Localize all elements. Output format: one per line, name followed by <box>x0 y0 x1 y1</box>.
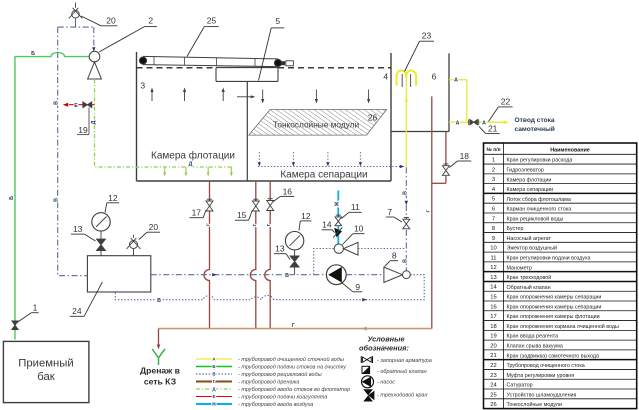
label 17 <box>190 208 207 218</box>
label 13 near pump <box>274 244 290 260</box>
svg-text:20: 20 <box>149 222 159 232</box>
label 24 <box>70 282 103 316</box>
check valve 14 <box>333 228 342 238</box>
svg-text:11: 11 <box>490 255 496 261</box>
svg-text:Г: Г <box>292 323 295 329</box>
svg-text:В: В <box>402 259 408 263</box>
svg-text:Г: Г <box>252 223 257 226</box>
svg-text:Кран трехходовой: Кран трехходовой <box>507 274 552 281</box>
svg-text:Гидроэлеватор: Гидроэлеватор <box>507 167 544 173</box>
svg-text:21: 21 <box>490 353 496 359</box>
svg-text:7: 7 <box>387 207 392 217</box>
svg-text:Д: Д <box>189 161 193 167</box>
legend line Е <box>196 394 327 400</box>
svg-text:Камера сепарации: Камера сепарации <box>280 170 367 181</box>
label 8 <box>385 251 399 267</box>
svg-text:20: 20 <box>106 15 116 25</box>
svg-text:Г: Г <box>425 209 430 212</box>
pipe B (green feed line) <box>15 52 91 339</box>
label 10 <box>343 224 365 245</box>
three-way valve 13 on saturator <box>97 239 106 256</box>
svg-text:А: А <box>454 78 458 84</box>
svg-text:- трубопровод ввода стоков во: - трубопровод ввода стоков во флотатор <box>238 387 350 393</box>
svg-text:обозначения:: обозначения: <box>359 344 409 353</box>
svg-text:1: 1 <box>492 158 495 164</box>
flotation chamber up-flow arrows <box>150 88 255 101</box>
svg-text:25: 25 <box>207 15 217 25</box>
svg-text:23: 23 <box>490 373 496 379</box>
legend pump symbol <box>362 376 396 388</box>
manometer 12 near pump <box>285 232 303 275</box>
pocket drain pipe with valve 18 <box>432 132 446 184</box>
svg-text:- трехходовой кран: - трехходовой кран <box>377 392 428 399</box>
sludge conveyor 25 <box>139 56 293 66</box>
svg-text:В: В <box>212 372 215 377</box>
svg-text:20: 20 <box>490 343 496 349</box>
svg-text:18: 18 <box>490 324 496 330</box>
svg-text:Карман очищенного стока: Карман очищенного стока <box>507 207 572 213</box>
valve 19 (reagent inlet) <box>83 102 92 108</box>
clean-water pocket 6 walls <box>391 53 449 131</box>
svg-text:12: 12 <box>301 211 311 221</box>
svg-text:15: 15 <box>237 210 247 220</box>
svg-text:6: 6 <box>432 72 437 82</box>
svg-text:2: 2 <box>492 167 495 173</box>
svg-text:23: 23 <box>422 31 432 41</box>
legend check valve symbol <box>362 366 427 375</box>
svg-text:В: В <box>285 273 289 279</box>
pipe V recycle intake dotted <box>258 152 405 168</box>
valve 17 <box>206 201 213 211</box>
pipe Zh air intake cyan <box>337 191 339 245</box>
svg-text:Е: Е <box>213 394 216 399</box>
svg-text:3: 3 <box>492 177 495 183</box>
drain pipe from separation chamber (valve 16 line) <box>265 181 271 329</box>
vacuum breaker 20 on saturator <box>127 235 141 256</box>
svg-text:15: 15 <box>490 295 496 301</box>
svg-text:Трубопровод очищенного стока: Трубопровод очищенного стока <box>507 363 585 369</box>
svg-text:Б: Б <box>212 364 215 369</box>
pipe V vacuum dash-dot circuit <box>58 19 96 276</box>
label 21 <box>479 124 500 134</box>
svg-text:Кран опорожнения камеры сепара: Кран опорожнения камеры сепарации <box>507 295 602 301</box>
svg-text:Отвод стока: Отвод стока <box>515 117 555 124</box>
label 7 <box>386 207 402 222</box>
svg-text:сеть КЗ: сеть КЗ <box>144 376 176 386</box>
pipe E red coagulant <box>63 103 95 107</box>
svg-text:24: 24 <box>490 383 497 389</box>
label 19 with stem leader <box>77 108 89 135</box>
drain pipe from separation chamber (valve 15 line) <box>250 181 255 329</box>
svg-text:Наименование: Наименование <box>550 147 590 153</box>
flotation tank body <box>137 52 392 181</box>
svg-text:Кран ввода реагента: Кран ввода реагента <box>507 334 559 340</box>
svg-text:5: 5 <box>275 16 280 26</box>
pipe V suction line saturator to pump <box>151 273 327 276</box>
svg-text:5: 5 <box>492 197 495 203</box>
label 20 top <box>81 15 118 26</box>
svg-text:13: 13 <box>490 275 496 281</box>
symbols legend title <box>359 335 409 353</box>
svg-text:16: 16 <box>490 304 496 310</box>
svg-text:Г: Г <box>266 223 271 226</box>
label 14 <box>322 220 335 233</box>
legend line В <box>196 371 322 378</box>
legend line А <box>196 356 344 363</box>
svg-text:- трубопровод дренажа: - трубопровод дренажа <box>238 380 299 386</box>
vacuum breaker valve 20 top <box>69 3 83 19</box>
svg-text:Устройство шламоудаления: Устройство шламоудаления <box>507 391 577 398</box>
label 15 <box>235 210 253 220</box>
pipe V pump to booster <box>346 274 384 276</box>
valve 16 <box>267 201 274 211</box>
svg-text:Б: Б <box>9 196 15 200</box>
svg-text:- насос: - насос <box>377 379 395 385</box>
svg-text:Г: Г <box>206 223 211 226</box>
svg-text:Сатуратор: Сатуратор <box>507 383 533 389</box>
saturator 24 <box>87 256 150 292</box>
air ejector 10 <box>334 242 358 255</box>
svg-text:Д: Д <box>91 120 97 124</box>
svg-text:17: 17 <box>490 314 496 320</box>
svg-text:9: 9 <box>492 236 495 242</box>
pipe D dash-dot light green <box>95 79 233 177</box>
drain Y symbol (green) <box>152 349 165 365</box>
svg-text:13: 13 <box>275 244 285 254</box>
drain header pipe G <box>159 327 432 331</box>
svg-text:26: 26 <box>490 402 496 408</box>
svg-text:8: 8 <box>392 251 397 261</box>
svg-text:12: 12 <box>108 193 118 203</box>
water level dashed line <box>137 67 217 69</box>
svg-text:бак: бак <box>37 371 54 383</box>
legend line Г <box>196 379 299 385</box>
pipe V booster out + return loop <box>115 275 424 302</box>
svg-text:- трубопровод очищенной сточно: - трубопровод очищенной сточной воды <box>238 356 344 363</box>
svg-text:Дренаж в: Дренаж в <box>140 365 180 375</box>
drain drop to sewer <box>157 329 161 350</box>
svg-text:Кран (задвижка) самотечного вы: Кран (задвижка) самотечного выхода <box>507 353 600 359</box>
svg-text:Кран рецикловой воды: Кран рецикловой воды <box>507 215 564 222</box>
svg-text:Кран опорожнения кармана очище: Кран опорожнения кармана очищенной воды <box>507 323 620 330</box>
svg-text:- трубопровод рецикловой воды: - трубопровод рецикловой воды <box>238 371 322 378</box>
svg-text:Манометр: Манометр <box>507 265 532 271</box>
valve 15 <box>252 201 259 211</box>
valve 1 (feed shut-off) <box>12 321 18 330</box>
svg-text:Тонкослойные модули: Тонкослойные модули <box>273 120 360 130</box>
svg-text:Камера сепарации: Камера сепарации <box>507 187 554 193</box>
svg-text:22: 22 <box>501 96 511 106</box>
svg-text:9: 9 <box>355 282 360 292</box>
svg-text:В: В <box>157 298 161 304</box>
svg-text:10: 10 <box>354 224 364 234</box>
legend three-way valve symbol <box>363 389 427 401</box>
svg-text:2: 2 <box>148 15 153 25</box>
svg-text:Кран регулировки подачи воздух: Кран регулировки подачи воздуха <box>507 256 591 262</box>
svg-text:Приемный: Приемный <box>18 358 73 370</box>
svg-text:19: 19 <box>78 125 88 135</box>
svg-text:1: 1 <box>33 302 38 312</box>
legend line Д <box>196 387 350 393</box>
svg-text:6: 6 <box>492 207 495 213</box>
label 2 <box>99 15 157 52</box>
label 20 saturator <box>139 222 160 240</box>
svg-text:Клапан срыва вакуума: Клапан срыва вакуума <box>507 344 563 350</box>
svg-text:- запорная арматура: - запорная арматура <box>377 358 432 364</box>
three-way valve 13 near pump <box>290 256 299 267</box>
label 25 <box>187 15 219 56</box>
svg-text:Насосный агрегат: Насосный агрегат <box>507 235 552 242</box>
svg-text:А: А <box>482 120 486 126</box>
pump 9 <box>326 265 346 285</box>
svg-text:Тонкослойные модули: Тонкослойные модули <box>507 401 563 408</box>
svg-text:Кран регулировки расхода: Кран регулировки расхода <box>507 158 573 164</box>
label 1 <box>17 302 39 322</box>
svg-text:14: 14 <box>322 220 332 230</box>
valve 18 <box>442 166 449 176</box>
svg-text:Кран опорожнения камеры флотац: Кран опорожнения камеры флотации <box>507 314 600 320</box>
yellow drop pipe from sleeve <box>405 78 409 167</box>
label 23 <box>405 31 435 72</box>
svg-text:- трубопровод подачи стоков на: - трубопровод подачи стоков на очистку <box>238 365 347 371</box>
svg-text:№ п/п: № п/п <box>486 147 500 153</box>
svg-text:А: А <box>456 120 460 126</box>
separation chamber down-flow arrows <box>261 90 370 104</box>
pipe V vertical to booster <box>405 167 408 271</box>
svg-text:Ж: Ж <box>211 402 216 407</box>
legend line Б <box>196 364 347 370</box>
svg-text:- обратный клапан: - обратный клапан <box>377 368 427 375</box>
label 11 <box>342 202 362 219</box>
svg-text:Обратный клапан: Обратный клапан <box>507 284 551 291</box>
svg-text:Е: Е <box>74 103 78 109</box>
svg-text:14: 14 <box>490 285 497 291</box>
label 16 <box>273 186 295 202</box>
label 22 <box>489 96 513 121</box>
hydroelevator 2 (circle + cone) <box>88 51 102 79</box>
svg-text:Камера флотации: Камера флотации <box>507 177 552 183</box>
svg-text:25: 25 <box>490 392 496 398</box>
svg-text:7: 7 <box>492 216 495 222</box>
svg-text:13: 13 <box>73 224 83 234</box>
svg-text:4: 4 <box>383 72 388 82</box>
svg-text:17: 17 <box>192 208 202 218</box>
svg-text:В: В <box>54 101 60 105</box>
svg-text:самотечный: самотечный <box>515 125 555 133</box>
label 12 near pump <box>299 211 312 231</box>
booster 8 <box>384 267 410 282</box>
svg-text:21: 21 <box>488 124 498 134</box>
svg-text:В: В <box>402 191 408 195</box>
label 13 saturator <box>71 224 96 241</box>
label 12 saturator <box>105 193 119 213</box>
svg-text:3: 3 <box>140 81 145 91</box>
receiving tank <box>3 341 89 402</box>
legend line Ж <box>196 402 313 408</box>
svg-text:26: 26 <box>368 112 378 122</box>
air valve 11 <box>335 217 342 226</box>
svg-text:22: 22 <box>490 363 496 369</box>
valve 7 recycle valve <box>403 219 410 229</box>
svg-text:- трубопровод ввода воздуха: - трубопровод ввода воздуха <box>238 402 313 408</box>
label 18 <box>450 151 472 168</box>
manometer 12 on saturator <box>92 213 110 239</box>
gate valve 21 <box>470 119 478 125</box>
svg-text:10: 10 <box>490 246 496 252</box>
svg-text:8: 8 <box>492 226 495 232</box>
gravity outlet text <box>515 117 555 133</box>
component table <box>484 143 637 409</box>
svg-text:11: 11 <box>351 202 360 212</box>
drain pipe from flotation chamber (valve 17 line) <box>204 181 210 329</box>
svg-text:Условные: Условные <box>367 335 404 344</box>
svg-text:24: 24 <box>72 306 82 316</box>
main right drain vertical <box>431 96 433 328</box>
svg-text:Б: Б <box>31 51 35 57</box>
svg-text:19: 19 <box>490 334 496 340</box>
svg-text:Кран опорожнения камеры сепара: Кран опорожнения камеры сепарации <box>507 304 602 310</box>
pipe A clean water outlet (yellow) <box>449 80 509 125</box>
svg-text:В: В <box>54 198 60 202</box>
svg-text:Лоток сбора флотошлама: Лоток сбора флотошлама <box>507 197 571 203</box>
svg-text:Ж: Ж <box>334 201 340 207</box>
drain caption <box>140 365 180 386</box>
level sleeve 23 (yellow) <box>395 70 417 87</box>
svg-text:- трубопровод подачи коагулянт: - трубопровод подачи коагулянта <box>238 395 327 401</box>
svg-text:Муфта регулировки уровня: Муфта регулировки уровня <box>507 373 575 379</box>
svg-text:16: 16 <box>283 186 293 196</box>
thin-layer modules 26 (hatched parallelogram) <box>249 110 387 136</box>
legend shut-off valve symbol <box>361 356 431 364</box>
label 5 <box>259 16 285 81</box>
chamber divider wall <box>246 81 248 181</box>
svg-text:12: 12 <box>490 265 496 271</box>
svg-text:Эжектор воздушный: Эжектор воздушный <box>507 245 558 252</box>
label 9 <box>341 282 362 292</box>
svg-text:Камера флотации: Камера флотации <box>151 150 235 162</box>
pipe V ejector branch dotted <box>314 249 407 275</box>
svg-text:Бустер: Бустер <box>507 226 524 232</box>
svg-text:18: 18 <box>460 151 470 161</box>
sludge trough 5 <box>216 68 278 82</box>
